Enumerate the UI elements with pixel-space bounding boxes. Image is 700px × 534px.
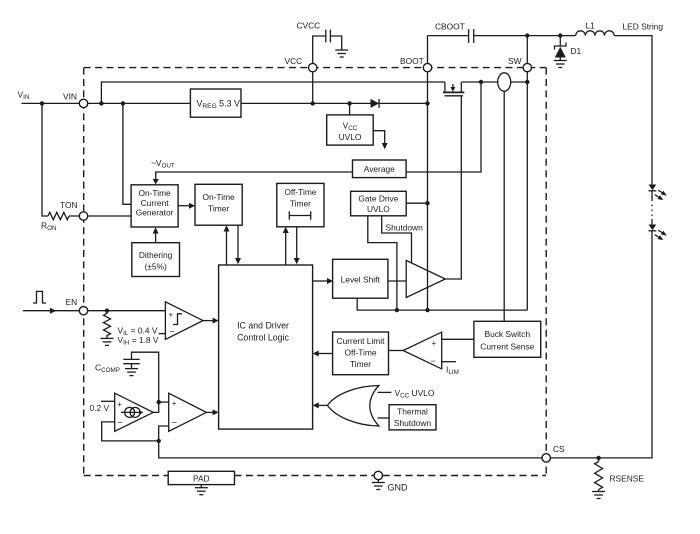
block VCC UVLO <box>327 115 374 145</box>
wire LED string down to CS line <box>546 231 652 458</box>
svg-text:Thermal: Thermal <box>397 407 428 417</box>
IC boundary dashed border <box>84 68 547 476</box>
svg-text:UVLO: UVLO <box>339 132 362 142</box>
svg-text:Shutdown: Shutdown <box>394 418 432 428</box>
wire OR gate output arrow into IC logic <box>318 404 327 406</box>
pin EN <box>79 307 87 315</box>
wire Off-Time Timer feedback up arrow <box>285 232 287 265</box>
transistor Q1 buck NFET <box>443 82 464 96</box>
svg-text:TON: TON <box>60 200 78 210</box>
svg-text:On-Time: On-Time <box>202 192 235 202</box>
node VIN rail junction <box>99 101 103 105</box>
pin SW <box>523 63 531 71</box>
wire Current Limit Off-Time Timer arrow into IC logic <box>318 353 333 355</box>
pin VIN <box>79 99 87 107</box>
pin VCC <box>309 63 317 71</box>
node BOOT return junction <box>425 308 429 312</box>
svg-text:CVCC: CVCC <box>297 21 321 31</box>
hysteresis symbol <box>173 314 182 325</box>
ground D1 <box>554 61 567 68</box>
svg-text:UVLO: UVLO <box>367 204 390 214</box>
node drain rail average tap <box>479 80 483 84</box>
LED D_led1 <box>649 185 657 191</box>
wire EN lead with arrow <box>23 310 84 312</box>
block Dithering <box>132 243 180 277</box>
wire VREG output line to BOOT diode node <box>242 102 428 104</box>
wire ILIM stub into comparator minus <box>442 361 456 363</box>
pin GND <box>374 471 382 479</box>
wire VCC UVLO output arrow down <box>373 131 385 144</box>
svg-text:+: + <box>169 311 174 320</box>
block Gate Drive UVLO <box>351 191 407 216</box>
node VIN OTCG branch junction <box>121 101 125 105</box>
wire 0.2V reference stub into gm amp plus <box>101 400 115 402</box>
wire Off-Time Timer output down arrow into IC logic <box>296 227 298 259</box>
wire SW vertical <box>526 36 528 311</box>
wire VIN top rail to buck FET drain <box>101 82 445 103</box>
wire Gate Drive UVLO to BOOT line <box>406 202 427 204</box>
svg-text:CBOOT: CBOOT <box>435 22 465 32</box>
LED D_led2 <box>649 225 657 231</box>
wire Dithering up arrow into On-Time Current Generator <box>155 233 157 243</box>
svg-text:−: − <box>170 327 175 337</box>
schmitt trigger EN buffer <box>165 302 203 340</box>
svg-text:Current Limit: Current Limit <box>337 336 386 346</box>
current sense element (sense ellipse) <box>498 73 511 91</box>
resistor RON <box>48 212 69 219</box>
wire gate lead from driver to FET gate <box>445 96 461 279</box>
wire VIN branch into On-Time Current Generator <box>123 103 131 204</box>
svg-text:Off-Time: Off-Time <box>284 187 316 197</box>
svg-text:+: + <box>432 339 437 348</box>
svg-text:Current Sense: Current Sense <box>480 342 534 352</box>
wire On-Time Timer output down arrow into IC logic <box>237 225 239 258</box>
capacitor CVCC <box>325 30 327 43</box>
ground GND pin <box>377 480 379 483</box>
wire Thermal Shutdown stub into OR gate <box>378 417 390 419</box>
LED light arrows 2 <box>658 230 662 233</box>
wire shutdown path B from Gate Drive UVLO into driver <box>382 216 412 263</box>
capacitor CCOMP <box>123 358 139 360</box>
wire shutdown path A from Gate Drive UVLO to level-shift return <box>368 216 397 310</box>
svg-text:−: − <box>431 356 436 366</box>
svg-text:PAD: PAD <box>193 474 210 484</box>
wire TON from RON to pin and into On-Time Current Generator <box>69 215 131 217</box>
svg-text:IC and Driver: IC and Driver <box>237 321 289 331</box>
node shutdown return junction <box>395 308 399 312</box>
svg-text:RSENSE: RSENSE <box>610 474 645 484</box>
diode boot diode <box>371 99 380 108</box>
block Thermal Shutdown <box>389 405 436 430</box>
wire VIL threshold stub into schmitt minus <box>159 333 166 335</box>
wire VIN lead from source <box>22 102 191 104</box>
svg-text:+: + <box>117 400 122 409</box>
wire Average right branch to switch rail <box>406 82 481 172</box>
svg-text:EN: EN <box>66 297 78 307</box>
wire CBOOT top line <box>428 35 469 37</box>
wire CS feedback line to CS pin <box>159 441 547 458</box>
pin TON <box>79 212 87 220</box>
node gate drive UVLO BOOT junction <box>425 201 429 205</box>
wire Level Shift to driver <box>388 280 406 282</box>
svg-text:Buck Switch: Buck Switch <box>484 329 530 339</box>
gate driver U2 triangle <box>406 260 445 297</box>
block IC and Driver Control Logic U1 <box>219 265 313 429</box>
pulse symbol EN input <box>33 291 46 303</box>
svg-text:Off-Time: Off-Time <box>344 348 376 358</box>
capacitor CBOOT <box>468 29 470 43</box>
block PAD <box>168 471 234 484</box>
svg-text:Control Logic: Control Logic <box>237 333 289 343</box>
gm error amplifier A1 <box>115 393 154 431</box>
block VREG 5.3V <box>190 89 241 117</box>
wire Buck Switch Current Sense to comparator plus <box>442 338 474 340</box>
inductor L1 <box>576 31 614 36</box>
current limit comparator A3 <box>403 332 442 369</box>
off-time timer internal symbol <box>289 211 310 219</box>
svg-text:Level Shift: Level Shift <box>341 275 381 285</box>
svg-text:Generator: Generator <box>136 208 174 218</box>
wire comparator minus down to CS node <box>159 426 169 441</box>
svg-text:LED String: LED String <box>623 22 664 32</box>
block Buck Switch Current Sense <box>474 321 541 357</box>
node comp minus junction <box>157 439 161 443</box>
svg-text:GND: GND <box>388 483 409 493</box>
comparator A2 <box>169 393 207 431</box>
diode D1 schottky to ground <box>559 36 561 46</box>
wire ~VOUT from Average to On-Time Current Generator <box>156 172 353 180</box>
ground CVCC <box>335 50 348 57</box>
svg-text:SW: SW <box>508 56 522 66</box>
block Level Shift <box>333 259 388 298</box>
node VCC UVLO junction <box>347 101 351 105</box>
wire comparator output arrow into IC logic <box>206 411 213 413</box>
svg-text:Dithering: Dithering <box>139 250 173 260</box>
svg-text:L1: L1 <box>586 21 596 31</box>
node VIN-RON junction <box>40 101 44 105</box>
wire VCC UVLO stub into OR gate <box>378 391 392 393</box>
svg-text:VIN: VIN <box>63 92 77 102</box>
pin CS <box>542 454 550 462</box>
svg-text:+: + <box>172 399 177 408</box>
OR gate shutdown <box>327 386 379 427</box>
node SW rail junction <box>525 80 529 84</box>
wire gm amp output jog up to comp node <box>153 402 158 412</box>
svg-text:Timer: Timer <box>350 359 371 369</box>
resistor RSENSE <box>595 462 603 490</box>
svg-text:Timer: Timer <box>290 199 311 209</box>
node comp plus junction <box>157 400 161 404</box>
node RSENSE junction <box>596 456 600 460</box>
node CBOOT SW junction <box>525 33 529 37</box>
block Average <box>353 160 407 178</box>
svg-text:Shutdown: Shutdown <box>386 223 424 233</box>
wire comp node into comparator plus <box>159 401 169 403</box>
wire VCC UVLO drop <box>349 103 351 115</box>
gm amp current source symbol <box>125 407 135 417</box>
wire sense ellipse down to Buck Switch Current Sense <box>503 91 505 321</box>
block Current Limit Off-Time Timer <box>333 332 389 375</box>
ground EN pulldown <box>101 338 114 345</box>
svg-text:BOOT: BOOT <box>400 56 424 66</box>
svg-text:Gate Drive: Gate Drive <box>358 194 398 204</box>
wire current limit comparator output to Current Limit Off-Time Timer <box>389 350 404 352</box>
ground PAD <box>200 485 202 488</box>
ground RSENSE <box>592 492 605 499</box>
svg-text:Average: Average <box>364 164 395 174</box>
svg-text:VCC: VCC <box>285 56 303 66</box>
wire BOOT vertical from CBOOT line down to level-shift return <box>427 36 429 311</box>
wire EN pin to schmitt buffer <box>84 310 166 312</box>
node D1 junction <box>558 33 562 37</box>
svg-text:Timer: Timer <box>208 204 229 214</box>
node VCC junction <box>311 101 315 105</box>
wire level shift bottom return to SW <box>357 298 527 310</box>
wire RSENSE tap <box>598 458 600 462</box>
svg-text:CS: CS <box>553 444 565 454</box>
wire gm amp minus feedback <box>102 422 159 441</box>
pin BOOT <box>423 63 431 71</box>
block On-Time Timer <box>195 184 242 225</box>
resistor EN pulldown <box>104 311 111 339</box>
svg-text:On-Time: On-Time <box>138 188 171 198</box>
svg-text:Current: Current <box>141 198 170 208</box>
node EN pulldown junction <box>105 309 109 313</box>
ground CCOMP <box>125 369 138 376</box>
LED light arrows 1 <box>658 190 662 193</box>
svg-text:D1: D1 <box>571 46 582 56</box>
svg-text:−: − <box>172 418 177 428</box>
wire VCC pin vertical <box>312 68 314 104</box>
wire FET source to SW rail <box>461 81 497 83</box>
wire CVCC branch <box>313 36 326 68</box>
wire LED string dotted segment <box>651 191 653 200</box>
wire L1 to LED string <box>614 36 652 185</box>
wire schmitt output arrow into IC logic <box>203 320 214 322</box>
svg-text:−: − <box>117 418 122 428</box>
svg-text:0.2 V: 0.2 V <box>90 403 110 413</box>
block On-Time Current Generator <box>131 185 178 227</box>
wire On-Time Timer feedback up arrow <box>226 231 228 266</box>
wire IC logic to Level Shift with arrow <box>313 280 328 282</box>
svg-text:(±5%): (±5%) <box>144 262 166 272</box>
wire VIN down branch to RON <box>42 103 48 216</box>
wire On-Time Current Generator to On-Time Timer with arrow <box>178 205 190 207</box>
node BOOT diode junction <box>425 101 429 105</box>
block Off-Time Timer <box>277 183 324 226</box>
